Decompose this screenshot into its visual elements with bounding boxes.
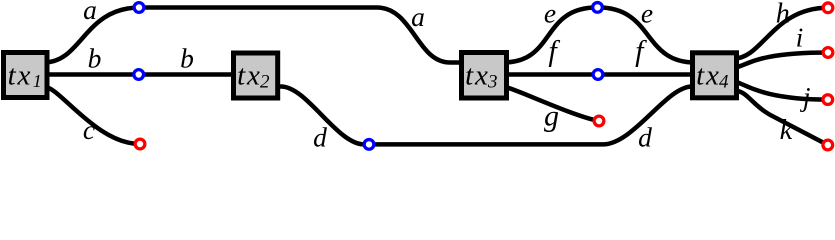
svg-text:tx: tx [8, 60, 33, 92]
terminal of wire h (red) [823, 3, 833, 13]
box tx4 [693, 53, 737, 98]
svg-text:tx: tx [696, 60, 721, 92]
box tx3 [462, 53, 507, 99]
wire d (tx2 to tx4 through node) [277, 87, 695, 145]
svg-text:2: 2 [260, 72, 270, 93]
wire j (tx4 to red terminal) [734, 82, 828, 100]
node on wire f (blue connector) [593, 70, 603, 80]
svg-text:k: k [780, 115, 794, 146]
svg-text:f: f [548, 35, 560, 68]
svg-text:a: a [83, 0, 97, 25]
svg-text:b: b [88, 42, 102, 73]
node on wire d (blue connector) [364, 140, 374, 150]
terminal of wire k (red) [823, 140, 833, 150]
svg-text:tx: tx [237, 60, 262, 92]
svg-text:4: 4 [719, 72, 729, 93]
svg-text:f: f [635, 35, 647, 68]
wire k (tx4 to red terminal) [734, 91, 828, 146]
svg-text:d: d [638, 121, 652, 152]
wire c (tx1 to red terminal) [44, 87, 140, 145]
svg-text:tx: tx [465, 60, 490, 92]
terminal of wire j (red) [823, 95, 833, 105]
svg-text:g: g [544, 99, 559, 132]
svg-text:h: h [776, 0, 790, 29]
terminal of wire i (red) [823, 48, 833, 58]
svg-text:c: c [83, 114, 95, 145]
wire b (tx1 to tx2 through node) [44, 72, 236, 77]
box tx2 [234, 53, 278, 98]
svg-text:a: a [411, 1, 425, 32]
wire e (tx3 to tx4 over hump through node) [503, 7, 695, 62]
box tx1 [4, 53, 48, 98]
svg-text:i: i [796, 21, 804, 52]
svg-text:3: 3 [487, 72, 498, 93]
node on wire a (blue connector) [134, 3, 144, 13]
wire a segment 2 (node to tx3) [140, 8, 465, 63]
svg-text:e: e [641, 0, 653, 29]
terminal of wire g (red) [594, 116, 604, 126]
svg-text:e: e [544, 0, 556, 29]
wire g (tx3 to red terminal) [503, 87, 599, 122]
wire h (tx4 to red terminal) [734, 8, 828, 59]
wire f (tx3 to tx4 through node) [503, 72, 695, 77]
svg-text:1: 1 [33, 71, 42, 91]
terminal of wire c (red) [135, 139, 145, 149]
svg-text:b: b [180, 42, 194, 73]
node on wire b (blue connector) [134, 70, 144, 80]
wire i (tx4 to red terminal) [734, 53, 828, 68]
node on wire e (blue connector) [593, 3, 603, 13]
wire a segment 1 (tx1 to node) [44, 8, 140, 63]
svg-text:d: d [313, 121, 327, 152]
